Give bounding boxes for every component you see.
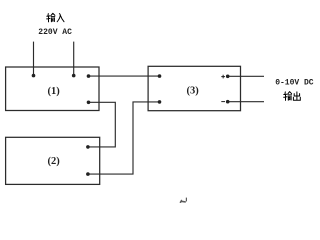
入 char bbox=[57, 14, 64, 22]
node dot box3 top-left bbox=[158, 74, 162, 78]
node dot box3 bottom-left bbox=[158, 100, 162, 104]
node dot box1 bottom-right bbox=[87, 101, 91, 105]
terminal dot plus bbox=[226, 75, 230, 79]
terminal dot minus bbox=[226, 100, 230, 104]
plus terminal mark bbox=[221, 75, 225, 79]
node dot box1 top-right bbox=[87, 74, 91, 78]
block (3) output box bbox=[148, 66, 240, 110]
输 char bbox=[47, 13, 55, 22]
svg-text:(1): (1) bbox=[47, 86, 60, 97]
output wire plus bbox=[228, 75, 264, 77]
label 输入 (input) bbox=[47, 13, 64, 22]
node dot box2 bottom-right bbox=[86, 172, 90, 176]
block (2) box bbox=[6, 137, 100, 184]
svg-text:(3): (3) bbox=[186, 86, 199, 97]
node dot box2 top-right bbox=[86, 145, 90, 149]
minus terminal mark bbox=[221, 101, 225, 103]
wire box3 to box2 bbox=[88, 102, 160, 174]
输 char bbox=[284, 92, 292, 101]
label 输出 (output) bbox=[284, 92, 301, 101]
junction dot input left bbox=[32, 74, 36, 78]
junction dot input right bbox=[72, 74, 76, 78]
input wire right 220V bbox=[73, 42, 75, 76]
block (1) rectifier box bbox=[6, 67, 99, 111]
output wire minus bbox=[228, 101, 264, 103]
svg-text:(2): (2) bbox=[47, 156, 60, 167]
wire box1 to box3 top bbox=[89, 75, 160, 77]
wire box1 to box2 bbox=[88, 102, 115, 147]
input wire left 220V bbox=[33, 42, 35, 76]
出 char bbox=[293, 92, 300, 100]
bottom-right stray pen mark bbox=[180, 198, 186, 203]
svg-text:0-10V DC: 0-10V DC bbox=[275, 79, 314, 88]
svg-text:220V AC: 220V AC bbox=[38, 28, 72, 37]
